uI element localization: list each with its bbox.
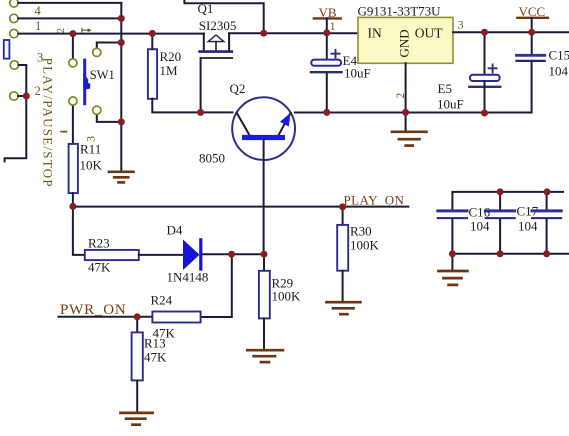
- capacitor E5: [484, 32, 486, 75]
- svg-text:E5: E5: [438, 81, 452, 96]
- SW1 pin marker arrow: [82, 29, 89, 32]
- svg-text:GND: GND: [397, 29, 412, 57]
- ground below regulator: [392, 132, 426, 146]
- Q2 collector line: [237, 113, 250, 136]
- ground below SW1: [109, 172, 133, 183]
- capacitor C16: [438, 209, 467, 212]
- svg-text:R13: R13: [144, 336, 166, 351]
- wire R23 to D4: [139, 254, 183, 256]
- resistor R30: [342, 207, 344, 225]
- power VB: [314, 17, 341, 19]
- transistor Q1 arrow: [208, 35, 224, 42]
- svg-text:100K: 100K: [272, 289, 302, 304]
- svg-text:VB: VB: [319, 5, 337, 20]
- wire R11 bottom: [72, 193, 74, 206]
- resistor R20: [148, 49, 157, 99]
- ground below R30: [327, 302, 361, 314]
- regulator U G9131-33T73U: [358, 17, 453, 63]
- svg-text:G9131-33T73U: G9131-33T73U: [358, 4, 442, 19]
- svg-text:D4: D4: [167, 223, 183, 238]
- SW1 pin number 1 dash: [61, 131, 66, 133]
- wire SW1 top-right lead: [97, 43, 122, 49]
- svg-text:R20: R20: [160, 49, 182, 64]
- svg-text:R23: R23: [88, 236, 110, 251]
- svg-text:47K: 47K: [88, 260, 111, 275]
- svg-text:2: 2: [395, 93, 407, 99]
- wire Q2 base lead: [263, 140, 265, 254]
- connector body blue: [4, 40, 10, 59]
- connector J pin circle row top: [10, 0, 18, 7]
- svg-text:3: 3: [458, 19, 464, 31]
- wire regulator GND lead: [405, 63, 407, 130]
- Q2 emitter line: [279, 113, 291, 135]
- svg-text:R11: R11: [80, 142, 101, 157]
- capacitor E4: [326, 33, 328, 61]
- Q2 base bar: [242, 135, 285, 140]
- svg-text:C15: C15: [549, 48, 569, 63]
- connector pin circle 2: [10, 92, 18, 100]
- svg-text:1M: 1M: [160, 63, 179, 78]
- svg-text:SW1: SW1: [90, 68, 115, 82]
- wire Q1 gate lead: [200, 58, 202, 112]
- svg-text:Q1: Q1: [198, 1, 214, 16]
- svg-text:47K: 47K: [144, 350, 167, 365]
- wire: [18, 95, 26, 97]
- wire regulator OUT: [453, 31, 569, 33]
- svg-text:2: 2: [56, 28, 67, 33]
- wire: [18, 17, 121, 19]
- svg-text:1: 1: [330, 21, 336, 33]
- wire connector L-shape: [5, 65, 27, 162]
- wire vertical bus x121: [120, 3, 122, 172]
- svg-text:104: 104: [518, 219, 538, 234]
- wire SW1 bottom-left lead: [72, 105, 74, 144]
- wire: [18, 2, 121, 4]
- svg-text:8050: 8050: [199, 151, 225, 166]
- power VCC: [517, 17, 548, 19]
- capacitor C18: [546, 192, 548, 210]
- net label PLAY_ON: [73, 206, 408, 208]
- wire main rail left: [18, 33, 204, 35]
- wire D4 cathode row: [203, 253, 265, 255]
- svg-text:4: 4: [35, 4, 42, 18]
- svg-text:Q2: Q2: [230, 81, 246, 96]
- capacitor C17: [499, 192, 501, 210]
- svg-text:OUT: OUT: [415, 26, 443, 41]
- svg-text:10uF: 10uF: [437, 97, 464, 112]
- svg-text:PLAY/PAUSE/STOP: PLAY/PAUSE/STOP: [41, 58, 56, 188]
- resistor R11: [69, 144, 78, 193]
- svg-text:VCC: VCC: [519, 4, 546, 19]
- resistor R29: [263, 254, 265, 271]
- net label PWR_ON: [59, 316, 153, 318]
- transistor Q1 source lead: [203, 34, 205, 52]
- switch SW1 actuator bar: [83, 59, 86, 106]
- svg-text:10uF: 10uF: [344, 65, 371, 80]
- capacitor C15: [531, 32, 533, 54]
- wire Q1 top loop: [184, 0, 263, 33]
- svg-text:104: 104: [549, 64, 569, 79]
- wire Q2 emitter row right: [295, 112, 532, 114]
- svg-text:1N4148: 1N4148: [167, 270, 209, 285]
- Q2 emitter arrowhead: [280, 113, 291, 127]
- svg-text:R24: R24: [151, 293, 173, 308]
- ground below R29: [247, 350, 283, 362]
- wire R24 right riser: [201, 254, 232, 317]
- transistor Q1 channel bar: [200, 50, 232, 53]
- switch SW1 contact circles: [69, 59, 77, 67]
- svg-text:PLAY_ON: PLAY_ON: [344, 193, 405, 208]
- wire R23 left drop: [73, 206, 85, 255]
- svg-text:1: 1: [35, 19, 41, 33]
- wire C16 net top: [452, 192, 563, 210]
- resistor R23: [85, 250, 139, 260]
- svg-text:SI2305: SI2305: [199, 18, 237, 33]
- transistor Q1 gate bar: [201, 57, 233, 59]
- svg-text:2: 2: [35, 84, 41, 98]
- transistor Q2: [232, 97, 295, 160]
- svg-text:R30: R30: [350, 224, 372, 239]
- connector pin circle 4: [10, 14, 18, 22]
- connector pin circle 1: [10, 29, 18, 37]
- svg-text:PWR_ON: PWR_ON: [60, 302, 126, 318]
- wire SW1 top-left lead: [72, 34, 74, 59]
- wire C16 net bottom: [452, 253, 569, 255]
- transistor Q1 drain lead: [228, 33, 230, 51]
- connector pin circle 3: [10, 61, 18, 69]
- ground below C16: [451, 254, 453, 271]
- svg-text:100K: 100K: [350, 238, 380, 253]
- ground below R13: [121, 413, 153, 425]
- wire R20 bottom to Q2: [152, 99, 232, 113]
- wire main rail mid: [229, 32, 358, 34]
- svg-text:104: 104: [470, 219, 490, 234]
- wire R20 top: [151, 33, 153, 49]
- switch SW1 actuator wedge: [83, 73, 90, 90]
- diode D4: [183, 240, 200, 271]
- wire SW1 bottom-right lead: [97, 114, 122, 122]
- resistor R24: [152, 312, 200, 323]
- svg-text:10K: 10K: [80, 158, 103, 173]
- svg-text:IN: IN: [368, 26, 382, 41]
- resistor R13: [136, 317, 138, 333]
